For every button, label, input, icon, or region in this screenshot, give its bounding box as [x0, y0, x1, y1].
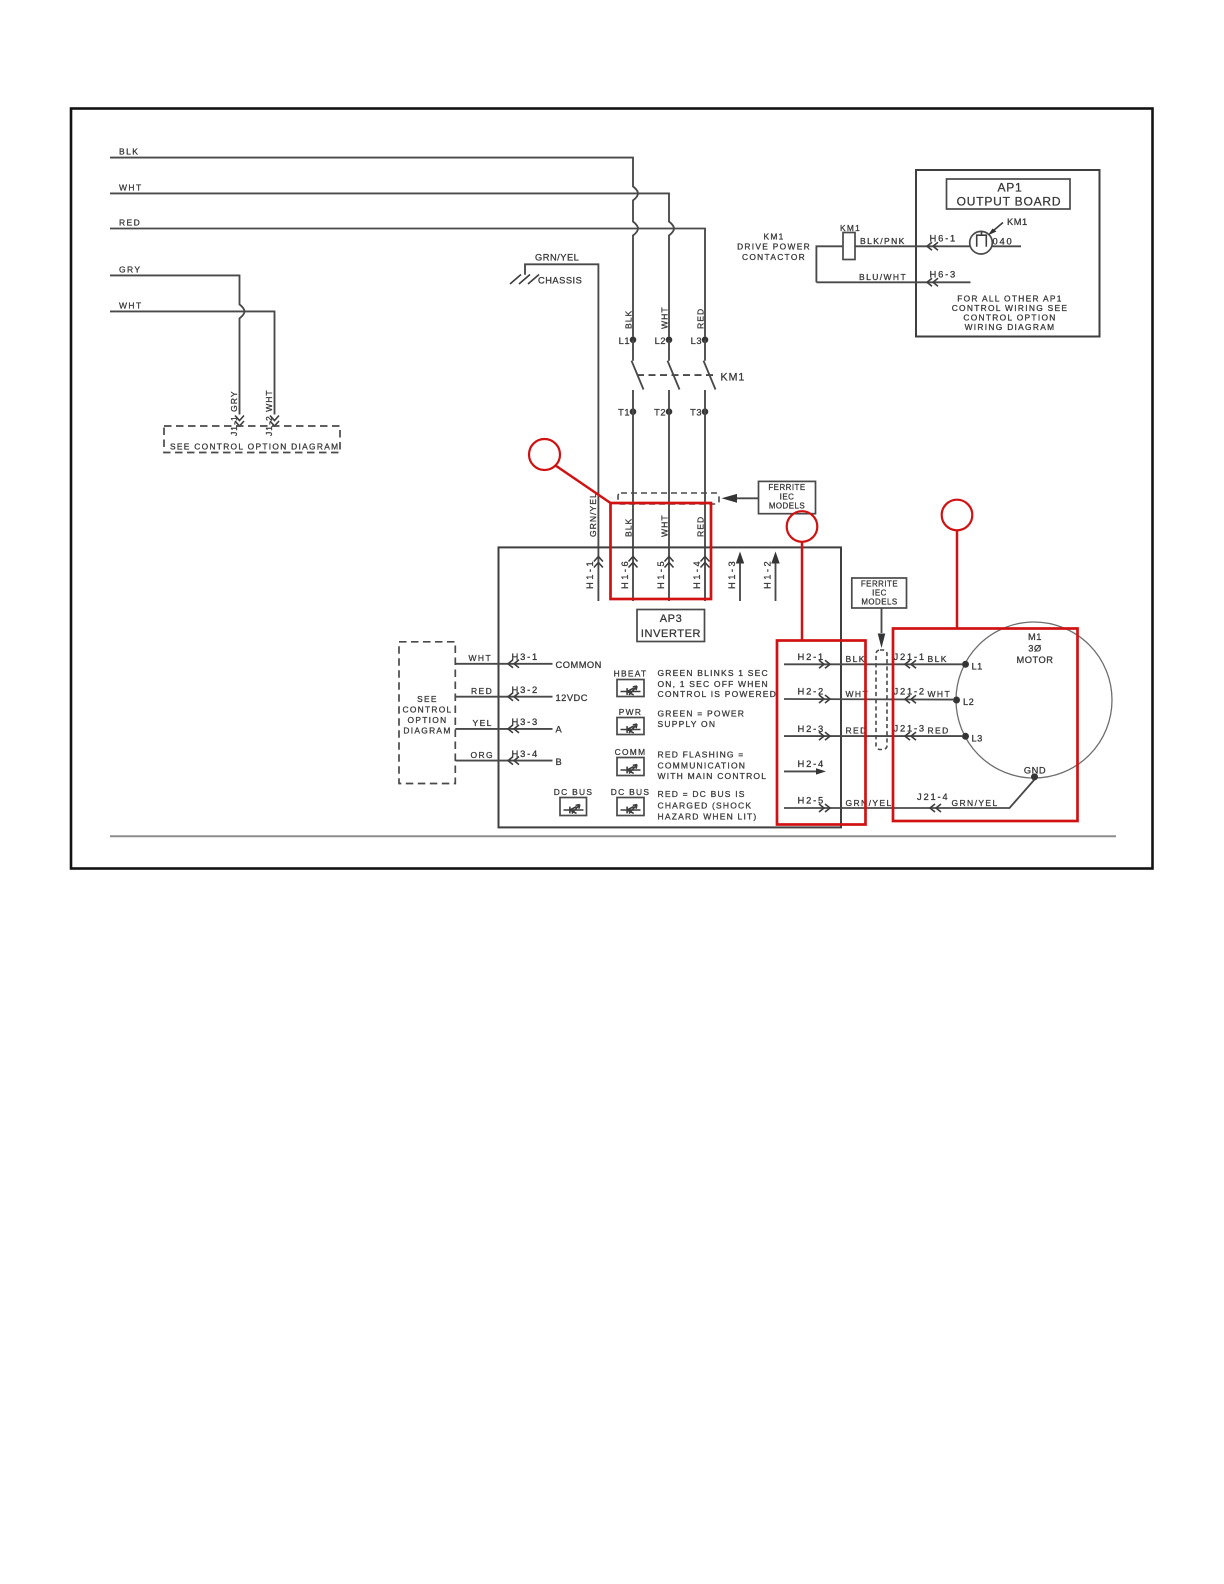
wire H2-4 — [784, 770, 818, 772]
wire BLK/PNK to H6-1 — [816, 246, 1021, 282]
svg-text:A: A — [556, 724, 563, 734]
svg-text:L2: L2 — [655, 336, 666, 346]
svg-text:KM1: KM1 — [763, 232, 784, 242]
svg-text:H6-1: H6-1 — [930, 232, 958, 243]
svg-text:GND: GND — [1024, 765, 1046, 775]
pin H1-4 arrow — [701, 557, 710, 568]
label box AP3 INVERTER — [637, 610, 705, 642]
svg-text:BLK/PNK: BLK/PNK — [860, 236, 906, 246]
svg-text:H1-5: H1-5 — [656, 559, 666, 589]
svg-text:GRN/YEL: GRN/YEL — [588, 492, 598, 537]
svg-text:L3: L3 — [972, 733, 983, 743]
wire H3-2 RED — [455, 696, 552, 698]
svg-text:12VDC: 12VDC — [556, 693, 588, 703]
wire T2 to inverter H1-5 — [668, 390, 670, 601]
svg-text:RED FLASHING =: RED FLASHING = — [658, 750, 745, 760]
border frame — [71, 109, 1153, 869]
svg-text:H1-6: H1-6 — [620, 559, 630, 589]
svg-text:M1: M1 — [1028, 632, 1042, 642]
svg-text:FERRITE: FERRITE — [861, 580, 898, 589]
wire H2-1 BLK to motor L1 — [784, 663, 962, 665]
node T2 — [666, 408, 673, 415]
red highlight rect 2 (H2 output pins) — [777, 641, 866, 825]
svg-text:KM1: KM1 — [840, 223, 861, 233]
node L3 — [702, 337, 709, 344]
wire H2-3 RED to motor L3 — [784, 735, 962, 737]
svg-text:INVERTER: INVERTER — [641, 628, 701, 640]
svg-text:H3-4: H3-4 — [512, 748, 540, 759]
svg-text:GRN/YEL: GRN/YEL — [535, 253, 579, 263]
svg-text:CONTROL WIRING SEE: CONTROL WIRING SEE — [952, 303, 1069, 313]
node motor L2 — [953, 697, 960, 704]
red highlight rect 1 (H1 input pins) — [611, 503, 712, 599]
svg-text:AP3: AP3 — [660, 613, 683, 625]
svg-text:B: B — [556, 757, 563, 767]
wire RED phase (bends down to L3) — [110, 229, 705, 337]
wire BLK phase (top feed, bends down to L1) — [110, 158, 638, 337]
svg-text:BLK: BLK — [624, 310, 634, 329]
pin H1-6 arrow — [629, 557, 638, 568]
red highlight rect 3 (motor connections) — [893, 629, 1078, 822]
svg-text:WHT: WHT — [469, 653, 493, 663]
svg-text:J1-2 WHT: J1-2 WHT — [264, 389, 274, 436]
red annotation circle 3 — [942, 500, 973, 531]
box FERRITE IEC MODELS 1 — [759, 481, 816, 513]
red leader line 2 — [801, 542, 804, 641]
svg-text:OPTION: OPTION — [408, 715, 448, 725]
pin H1-3 arrow — [739, 562, 741, 601]
svg-text:H2-3: H2-3 — [798, 723, 826, 734]
board AP1 outline — [916, 170, 1100, 337]
arrow ferrite 1 pointer — [735, 497, 759, 499]
svg-text:3Ø: 3Ø — [1028, 644, 1041, 654]
svg-text:WHT: WHT — [119, 182, 143, 192]
node motor GND — [1031, 773, 1038, 780]
connector 040 circle — [970, 231, 993, 254]
svg-text:H2-1: H2-1 — [798, 651, 826, 662]
red leader line 1 — [556, 466, 611, 504]
node T1 — [630, 408, 637, 415]
svg-text:MODELS: MODELS — [769, 502, 805, 511]
svg-text:L2: L2 — [963, 697, 974, 707]
svg-text:WHT: WHT — [928, 689, 952, 699]
svg-text:WHT: WHT — [119, 300, 143, 310]
svg-text:H3-3: H3-3 — [512, 716, 540, 727]
svg-text:RED: RED — [119, 217, 141, 227]
svg-text:YEL: YEL — [473, 718, 493, 728]
svg-text:WHT: WHT — [660, 514, 670, 537]
svg-text:SUPPLY ON: SUPPLY ON — [658, 719, 717, 729]
bottom separator line — [110, 835, 1116, 837]
svg-text:DC BUS: DC BUS — [554, 787, 593, 797]
wire WHT control (down to J1-2) — [110, 311, 275, 414]
svg-text:PWR: PWR — [619, 707, 642, 717]
svg-text:CONTROL: CONTROL — [402, 705, 452, 715]
svg-text:T2: T2 — [654, 408, 666, 418]
dashed box SEE CONTROL OPTION DIAGRAM — [164, 426, 340, 453]
wire H3-3 YEL — [455, 728, 552, 730]
contactor KM1 pole 2 blade — [668, 340, 680, 390]
svg-text:BLK: BLK — [846, 654, 866, 664]
svg-text:FOR ALL OTHER AP1: FOR ALL OTHER AP1 — [957, 294, 1063, 304]
pin H1-5 arrow — [665, 557, 674, 568]
svg-text:L1: L1 — [972, 661, 983, 671]
svg-text:DC BUS: DC BUS — [611, 787, 650, 797]
svg-text:T3: T3 — [690, 408, 702, 418]
motor M1 circle — [956, 622, 1112, 778]
svg-text:IEC: IEC — [872, 589, 887, 598]
svg-text:BLK: BLK — [119, 147, 139, 157]
box FERRITE IEC MODELS 2 — [852, 578, 907, 608]
svg-text:GRY: GRY — [119, 264, 141, 274]
ferrite core 1 (dashed) — [618, 493, 719, 504]
pointer arrow KM1 to connector — [990, 223, 1003, 234]
svg-text:BLU/WHT: BLU/WHT — [859, 272, 907, 282]
svg-text:WITH MAIN CONTROL: WITH MAIN CONTROL — [658, 771, 768, 781]
arrow into J1-1 — [235, 416, 244, 427]
node motor L1 — [962, 661, 969, 668]
svg-text:GREEN = POWER: GREEN = POWER — [658, 708, 746, 718]
svg-text:L3: L3 — [691, 336, 702, 346]
svg-text:CONTROL OPTION: CONTROL OPTION — [963, 313, 1056, 323]
svg-text:ON, 1 SEC OFF WHEN: ON, 1 SEC OFF WHEN — [658, 679, 769, 689]
svg-text:040: 040 — [993, 236, 1014, 247]
node L1 — [630, 337, 637, 344]
svg-text:RED: RED — [696, 308, 706, 329]
pin H1-2 arrow — [775, 562, 777, 601]
red annotation circle 2 — [787, 511, 818, 542]
svg-text:COMMUNICATION: COMMUNICATION — [658, 761, 747, 771]
svg-text:CHARGED (SHOCK: CHARGED (SHOCK — [658, 800, 753, 810]
svg-text:H2-5: H2-5 — [798, 795, 826, 806]
svg-text:H3-1: H3-1 — [512, 651, 540, 662]
svg-text:J21-2: J21-2 — [894, 686, 926, 697]
svg-text:RED: RED — [928, 726, 950, 736]
svg-text:KM1: KM1 — [721, 372, 746, 384]
svg-text:H1-1: H1-1 — [585, 559, 595, 589]
node motor L3 — [962, 733, 969, 740]
dashed box SEE CONTROL OPTION DIAGRAM 2 — [399, 642, 455, 784]
svg-text:CONTROL IS POWERED: CONTROL IS POWERED — [658, 689, 778, 699]
svg-text:DRIVE POWER: DRIVE POWER — [737, 242, 811, 252]
AP1 OUTPUT BOARD title box — [947, 179, 1071, 209]
node L2 — [666, 337, 673, 344]
svg-text:IEC: IEC — [780, 492, 795, 501]
coil KM1 — [843, 233, 855, 260]
contactor KM1 pole 1 blade — [632, 340, 644, 390]
node T3 — [702, 408, 709, 415]
svg-text:H1-2: H1-2 — [763, 559, 773, 589]
svg-text:BLK: BLK — [624, 518, 634, 537]
contactor KM1 linkage dashed line — [637, 374, 716, 376]
svg-text:H3-2: H3-2 — [512, 684, 540, 695]
wire H3-1 WHT — [455, 663, 552, 665]
svg-text:J1-1 GRY: J1-1 GRY — [229, 390, 239, 436]
svg-text:SEE: SEE — [417, 694, 438, 704]
svg-text:HAZARD WHEN LIT): HAZARD WHEN LIT) — [658, 811, 758, 821]
svg-text:L1: L1 — [619, 336, 630, 346]
svg-text:SEE CONTROL OPTION DIAGRAM: SEE CONTROL OPTION DIAGRAM — [170, 442, 339, 452]
svg-text:H1-4: H1-4 — [692, 559, 702, 589]
svg-text:COMMON: COMMON — [556, 660, 602, 670]
svg-text:GREEN BLINKS 1 SEC: GREEN BLINKS 1 SEC — [658, 668, 769, 678]
svg-text:WHT: WHT — [660, 306, 670, 329]
svg-text:BLK: BLK — [928, 654, 948, 664]
wire H2-2 WHT to motor L2 — [784, 698, 953, 701]
red annotation circle 1 — [529, 439, 560, 470]
wire H2-5 GRN/YEL to motor GND — [784, 780, 1035, 809]
svg-text:ORG: ORG — [471, 750, 495, 760]
svg-text:MOTOR: MOTOR — [1017, 655, 1054, 665]
ground chassis symbol — [510, 275, 539, 285]
arrow into J1-2 — [270, 416, 279, 427]
svg-text:T1: T1 — [618, 408, 630, 418]
wire WHT phase (bends down to L2) — [110, 193, 674, 336]
svg-text:HBEAT: HBEAT — [614, 669, 648, 679]
wire BLU/WHT to H6-3 — [816, 281, 970, 283]
svg-text:GRN/YEL: GRN/YEL — [846, 798, 893, 808]
svg-text:WIRING DIAGRAM: WIRING DIAGRAM — [965, 322, 1056, 332]
svg-text:KM1: KM1 — [1007, 217, 1028, 227]
svg-text:J21-4: J21-4 — [917, 791, 949, 802]
pin H1-1 arrow — [594, 557, 603, 568]
arrow H6-1 — [927, 242, 938, 250]
wire GRN/YEL chassis to inverter H1-1 — [525, 264, 598, 601]
svg-text:H6-3: H6-3 — [930, 268, 958, 279]
svg-text:OUTPUT BOARD: OUTPUT BOARD — [957, 195, 1062, 209]
svg-text:FERRITE: FERRITE — [768, 483, 805, 492]
wire T1 to inverter H1-6 — [632, 390, 634, 601]
svg-text:COMM: COMM — [615, 747, 647, 757]
svg-text:RED = DC BUS IS: RED = DC BUS IS — [658, 789, 746, 799]
arrow ferrite 2 pointer — [881, 608, 883, 633]
svg-text:CONTACTOR: CONTACTOR — [742, 252, 806, 262]
svg-text:H2-2: H2-2 — [798, 686, 826, 697]
svg-text:RED: RED — [471, 686, 493, 696]
contactor KM1 pole 3 blade — [704, 340, 716, 390]
svg-text:DIAGRAM: DIAGRAM — [403, 726, 451, 736]
wire T3 to inverter H1-4 — [704, 390, 706, 601]
svg-text:AP1: AP1 — [997, 181, 1022, 195]
wire H3-4 ORG — [455, 760, 552, 762]
inverter AP3 outline — [499, 547, 842, 827]
svg-text:RED: RED — [696, 516, 706, 537]
svg-text:H1-3: H1-3 — [727, 559, 737, 589]
wire GRY control (down to J1-1) — [110, 275, 245, 414]
svg-text:MODELS: MODELS — [861, 598, 897, 607]
arrow H6-3 — [927, 278, 938, 286]
svg-text:H2-4: H2-4 — [798, 758, 826, 769]
ferrite core 2 (dashed) — [876, 650, 887, 750]
red leader line 3 — [956, 530, 959, 628]
svg-text:CHASSIS: CHASSIS — [538, 276, 582, 286]
svg-text:GRN/YEL: GRN/YEL — [952, 798, 999, 808]
